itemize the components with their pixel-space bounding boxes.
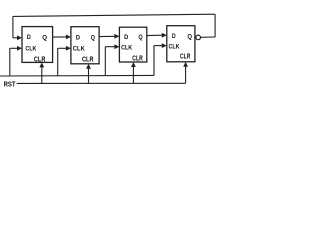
svg-text:CLR: CLR — [180, 54, 190, 61]
arrowhead U4 CLK input — [162, 43, 167, 48]
arrowhead U3 CLK input — [114, 44, 119, 49]
D flip-flop U2 body — [71, 27, 99, 64]
clock stub riser U4 — [153, 46, 155, 76]
clock stub riser U3 — [104, 47, 106, 76]
D flip-flop U4 body — [167, 26, 195, 62]
svg-text:Q: Q — [91, 34, 95, 41]
arrowhead U4 CLR input — [183, 62, 188, 67]
arrowhead U2 CLR input — [86, 64, 91, 69]
arrowhead U1 CLR input — [39, 62, 44, 67]
clear stem U4 — [185, 66, 187, 83]
svg-text:D: D — [76, 34, 80, 41]
svg-text:RST: RST — [4, 79, 16, 88]
svg-text:D: D — [27, 34, 31, 41]
wire into U1 D input — [13, 37, 18, 39]
wire into U3 CLK — [105, 46, 115, 48]
clear stem U3 — [132, 66, 134, 83]
svg-text:Q: Q — [138, 34, 142, 41]
svg-text:Q: Q — [187, 34, 192, 41]
D flip-flop U3 body — [119, 27, 146, 62]
arrowhead U1 CLK input — [17, 46, 22, 51]
clear stem U2 — [88, 68, 90, 84]
clock stub riser U1 — [9, 48, 11, 76]
svg-text:CLR: CLR — [82, 57, 94, 64]
clear stem U1 — [41, 67, 43, 84]
feedback wire right riser — [214, 14, 216, 37]
wire into U4 CLK — [154, 45, 163, 47]
svg-text:CLR: CLR — [132, 55, 143, 62]
arrowhead U3 CLR input — [131, 62, 136, 67]
arrowhead U1 D input — [17, 35, 22, 40]
feedback wire top run — [13, 14, 215, 16]
wire U3 Q to U4 D — [147, 34, 163, 36]
arrowhead U2 D input — [66, 35, 71, 40]
arrowhead U2 CLK input — [66, 46, 71, 51]
clock rail — [0, 74, 154, 77]
svg-text:CLK: CLK — [25, 45, 36, 52]
clock stub riser U2 — [57, 48, 59, 75]
wire into U1 CLK — [10, 47, 18, 49]
svg-text:CLK: CLK — [73, 46, 85, 53]
wire U1 Q to U2 D — [53, 36, 67, 38]
D flip-flop U1 body — [22, 27, 53, 63]
svg-text:CLK: CLK — [121, 45, 132, 52]
arrowhead U4 D input — [162, 33, 167, 38]
feedback wire left drop — [12, 16, 14, 37]
svg-text:Q: Q — [42, 34, 47, 41]
feedback wire from bubble to right riser — [201, 36, 215, 38]
wire into U2 CLK — [58, 47, 67, 49]
RST rail — [17, 82, 186, 84]
svg-text:CLR: CLR — [34, 57, 46, 64]
svg-text:D: D — [172, 33, 176, 40]
inverted output bubble on U4 Q' — [196, 35, 201, 40]
wire U2 Q to U3 D — [99, 35, 115, 37]
svg-text:CLK: CLK — [169, 44, 180, 51]
arrowhead U3 D input — [114, 34, 119, 39]
svg-text:D: D — [124, 34, 128, 41]
